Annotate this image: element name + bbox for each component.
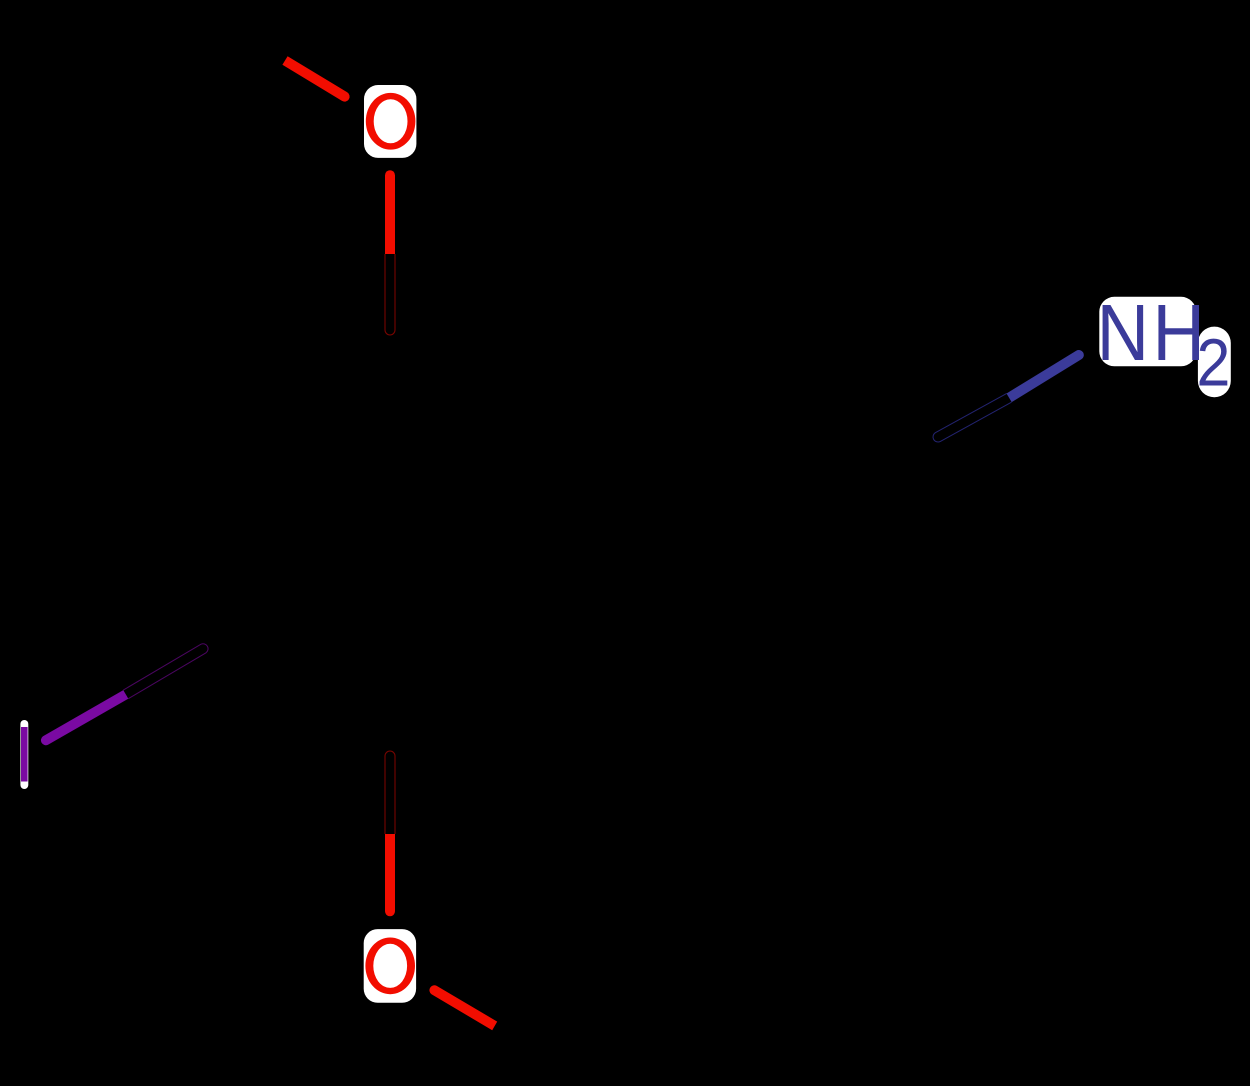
atom I letter (purple) [21, 727, 28, 782]
atom O2 letter O (red) [365, 938, 415, 995]
atom N label background (NH) [1099, 297, 1196, 367]
bond O2-CH3 (bottom methoxy methyl bond, O half red) [429, 985, 497, 1030]
bond C-N (nitrogen half blue) [1007, 350, 1084, 402]
bond C5-O2 rim (carbon half outline) [385, 751, 395, 834]
bond O1-C2 (oxygen half red) [385, 170, 395, 254]
bond C5-O2 (oxygen half red) [385, 834, 395, 916]
atom I label background [20, 720, 28, 789]
atom O1 label background [364, 85, 416, 158]
atom O1 letter O (red) [366, 93, 416, 150]
bond O1-C2 rim (carbon half outline) [385, 254, 395, 335]
svg-text:N: N [1097, 289, 1149, 378]
bond C-N rim (carbon half outline) [933, 393, 1011, 442]
bond O1-CH3 (top methoxy methyl bond, O half red) [282, 56, 349, 101]
atom O2 label background [364, 929, 416, 1003]
bond C4-I (iodine half purple) [41, 690, 128, 745]
atom N subscript background (2) [1198, 327, 1231, 398]
svg-text:2: 2 [1197, 325, 1231, 400]
bond C4-I rim (carbon half outline) [123, 644, 208, 699]
